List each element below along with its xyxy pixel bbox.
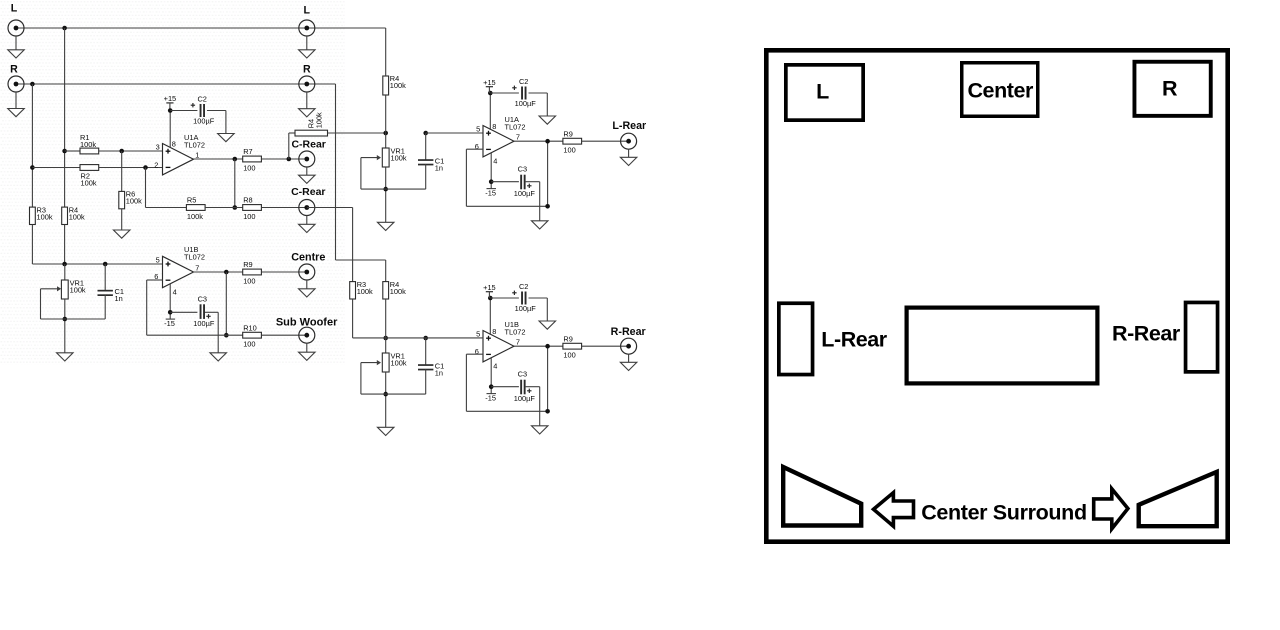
svg-text:C2: C2 <box>519 77 528 86</box>
svg-text:4: 4 <box>493 156 497 165</box>
svg-text:100k: 100k <box>81 178 97 187</box>
svg-text:8: 8 <box>492 122 496 131</box>
svg-text:Center Surround: Center Surround <box>921 501 1087 525</box>
svg-text:L: L <box>11 3 18 15</box>
svg-text:R10: R10 <box>243 323 257 332</box>
svg-text:100k: 100k <box>80 140 96 149</box>
svg-text:R: R <box>1162 77 1178 101</box>
svg-text:R9: R9 <box>243 260 252 269</box>
svg-text:-15: -15 <box>164 319 175 328</box>
svg-text:3: 3 <box>156 143 160 152</box>
svg-text:C2: C2 <box>519 282 528 291</box>
svg-text:1n: 1n <box>435 164 443 173</box>
svg-text:100k: 100k <box>69 212 85 221</box>
svg-text:100k: 100k <box>314 112 323 128</box>
svg-text:-15: -15 <box>485 393 496 402</box>
svg-text:C3: C3 <box>518 165 527 174</box>
svg-text:100µF: 100µF <box>515 304 537 313</box>
svg-text:100µF: 100µF <box>193 117 215 126</box>
svg-text:100µF: 100µF <box>514 189 536 198</box>
svg-text:+15: +15 <box>483 283 496 292</box>
svg-text:100k: 100k <box>390 81 406 90</box>
svg-text:TL072: TL072 <box>184 140 205 149</box>
svg-text:TL072: TL072 <box>505 327 526 336</box>
svg-text:100k: 100k <box>357 287 373 296</box>
svg-text:R: R <box>303 64 311 76</box>
svg-text:+15: +15 <box>164 94 177 103</box>
svg-text:100k: 100k <box>126 197 142 206</box>
svg-text:100: 100 <box>243 277 255 286</box>
svg-text:5: 5 <box>156 256 160 265</box>
svg-text:C-Rear: C-Rear <box>291 186 325 198</box>
svg-text:100k: 100k <box>37 212 53 221</box>
svg-text:R8: R8 <box>243 196 252 205</box>
svg-text:1n: 1n <box>115 294 123 303</box>
svg-text:TL072: TL072 <box>505 122 526 131</box>
svg-text:Centre: Centre <box>291 252 325 264</box>
svg-text:7: 7 <box>195 264 199 273</box>
svg-text:Center: Center <box>967 79 1033 103</box>
svg-text:100: 100 <box>243 212 255 221</box>
svg-text:R9: R9 <box>563 129 572 138</box>
svg-text:5: 5 <box>476 125 480 134</box>
svg-text:R5: R5 <box>187 196 196 205</box>
svg-text:6: 6 <box>475 142 479 151</box>
svg-text:4: 4 <box>493 361 497 370</box>
svg-text:+15: +15 <box>483 78 496 87</box>
svg-text:7: 7 <box>516 338 520 347</box>
svg-text:-15: -15 <box>485 188 496 197</box>
svg-text:4: 4 <box>173 287 177 296</box>
svg-text:2: 2 <box>154 160 158 169</box>
svg-text:L-Rear: L-Rear <box>821 328 887 352</box>
svg-text:L-Rear: L-Rear <box>612 120 646 132</box>
svg-text:100: 100 <box>563 351 575 360</box>
svg-text:100µF: 100µF <box>514 394 536 403</box>
svg-text:R-Rear: R-Rear <box>611 326 646 338</box>
svg-text:100k: 100k <box>391 153 407 162</box>
svg-text:100k: 100k <box>391 358 407 367</box>
svg-text:100: 100 <box>243 340 255 349</box>
svg-text:1n: 1n <box>435 369 443 378</box>
svg-text:R: R <box>10 64 18 76</box>
svg-text:R-Rear: R-Rear <box>1112 322 1181 346</box>
svg-text:100k: 100k <box>187 212 203 221</box>
svg-text:100k: 100k <box>70 285 86 294</box>
svg-text:R9: R9 <box>563 334 572 343</box>
svg-text:6: 6 <box>475 347 479 356</box>
svg-text:100: 100 <box>243 164 255 173</box>
svg-text:TL072: TL072 <box>184 252 205 261</box>
svg-text:L: L <box>816 80 829 104</box>
svg-text:100k: 100k <box>390 287 406 296</box>
svg-text:R7: R7 <box>243 147 252 156</box>
svg-text:7: 7 <box>516 133 520 142</box>
svg-text:8: 8 <box>172 139 176 148</box>
svg-text:C3: C3 <box>518 370 527 379</box>
svg-text:L: L <box>304 5 311 17</box>
svg-text:C-Rear: C-Rear <box>291 139 325 151</box>
svg-text:8: 8 <box>492 327 496 336</box>
svg-text:1: 1 <box>195 151 199 160</box>
svg-text:100: 100 <box>563 146 575 155</box>
svg-text:100µF: 100µF <box>515 99 537 108</box>
svg-text:C2: C2 <box>197 94 206 103</box>
svg-text:C3: C3 <box>198 294 207 303</box>
svg-text:100µF: 100µF <box>193 319 215 328</box>
